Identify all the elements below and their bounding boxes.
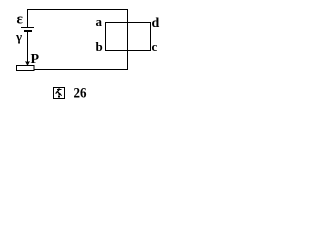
svg-text:a: a — [96, 14, 103, 29]
battery cell: long plate (positive) — [21, 27, 34, 29]
wire right vertical — [127, 9, 129, 70]
wire left vertical lower — [27, 32, 29, 62]
potentiometer arrow (wiper) — [25, 62, 30, 66]
svg-text:d: d — [152, 16, 160, 31]
wire top horizontal — [27, 9, 128, 11]
battery cell: short thick plate (negative) — [24, 30, 32, 32]
wire bottom horizontal — [34, 69, 128, 71]
svg-text:b: b — [96, 39, 103, 54]
svg-text:ε: ε — [17, 12, 24, 28]
box abcd — [106, 23, 151, 51]
svg-text:c: c — [152, 39, 158, 54]
wire left vertical upper — [27, 9, 29, 27]
svg-text:26: 26 — [74, 86, 87, 102]
caption: hand-drawn CJK glyph "tu" (figure) outer box — [54, 88, 65, 99]
svg-text:P: P — [31, 52, 40, 67]
svg-text:γ: γ — [15, 29, 22, 44]
potentiometer R-P body box — [17, 66, 35, 71]
